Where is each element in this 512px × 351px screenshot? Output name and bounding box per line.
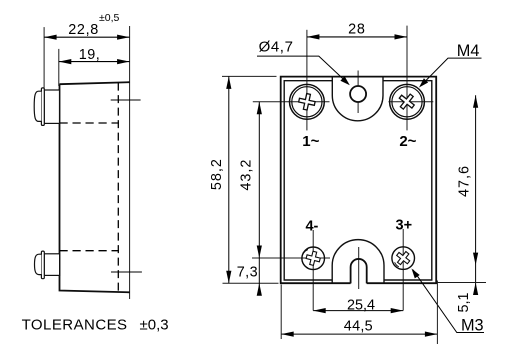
centerline horizontal top screws left (253, 101, 330, 103)
hidden dashed horizontal top (60, 122, 120, 124)
screw 1 inner circle (292, 87, 322, 117)
screw 4 outer circle (302, 247, 325, 270)
svg-text:47,6: 47,6 (456, 165, 472, 197)
extension line left (22,8) (43, 27, 45, 88)
bottom terminal screw profile: boss (44, 254, 59, 276)
svg-text:Ø4,7: Ø4,7 (259, 38, 294, 55)
screw 4 phillips cross (305, 250, 321, 266)
dimension 47,6 with 5,1 below (475, 95, 477, 293)
dimension 58,2 (228, 76, 230, 283)
centerline vertical screw 1 (306, 30, 308, 131)
centerline vertical screw 3 (402, 229, 404, 311)
side body outline (60, 82, 131, 292)
svg-text:±0,3: ±0,3 (140, 317, 169, 334)
svg-text:M4: M4 (457, 42, 480, 60)
svg-text:44,5: 44,5 (344, 318, 373, 334)
svg-text:22,8: 22,8 (68, 22, 99, 38)
dimension 19 line (59, 61, 130, 63)
screw 1 phillips cross (297, 92, 316, 111)
extension line bottom edge right (437, 282, 486, 284)
svg-text:28: 28 (348, 21, 366, 37)
dimension 44,5 (281, 333, 437, 335)
centerline vertical screw 2 (406, 26, 408, 131)
dimension 43,2 with 7,3 below (258, 102, 260, 293)
bottom screw cap (35, 254, 42, 274)
centerline horizontal top screw right (389, 101, 434, 103)
screw 3 phillips cross (394, 249, 413, 268)
svg-text:7,3: 7,3 (237, 265, 258, 281)
body inner border (284, 78, 432, 284)
extension line 44,5 right (436, 281, 438, 345)
screw 2 outer circle (390, 84, 425, 119)
centerline mount hole vertical (357, 71, 359, 114)
svg-text:3+: 3+ (396, 217, 413, 233)
extension line 44,5 left (280, 285, 282, 340)
svg-text:5,1: 5,1 (456, 292, 472, 312)
svg-text:TOLERANCES: TOLERANCES (22, 317, 128, 334)
top screw cap (34, 91, 41, 121)
svg-text:±0,5: ±0,5 (99, 12, 120, 24)
screw 1 outer circle (290, 84, 325, 119)
screw 4 chamfer arc (302, 250, 308, 268)
centerline slot vertical (358, 247, 360, 289)
extension line top edge left (222, 75, 277, 77)
top terminal screw profile: boss (44, 90, 59, 123)
dimension 28 (307, 36, 407, 38)
screw 2 phillips cross (396, 90, 418, 112)
svg-text:58,2: 58,2 (209, 158, 225, 190)
extension line right shared (129, 26, 131, 299)
svg-text:25,4: 25,4 (347, 298, 375, 314)
extension line (19) (58, 49, 60, 86)
hidden dashed vertical line (117, 83, 119, 292)
top screw flange (41, 88, 44, 126)
svg-text:4-: 4- (305, 218, 318, 234)
svg-text:1~: 1~ (302, 133, 319, 150)
dimension 25,4 (313, 310, 403, 312)
svg-text:2~: 2~ (399, 133, 416, 150)
svg-text:43,2: 43,2 (239, 159, 255, 191)
extension line bottom edge left (223, 282, 279, 284)
svg-text:M3: M3 (461, 317, 484, 335)
mounting hole top (350, 86, 366, 102)
centerline tick bottom (111, 271, 142, 273)
centerline vertical screw 4 (312, 230, 314, 311)
svg-text:19,: 19, (79, 47, 101, 63)
dimension 22,8 line (44, 36, 130, 38)
screw 2 inner circle (392, 87, 422, 117)
hidden dashed horizontal bottom (60, 250, 120, 252)
bottom screw flange (41, 251, 44, 279)
centerline tick top (111, 99, 141, 101)
centerline horizontal bottom screw left (252, 257, 330, 259)
screw 3 outer circle (392, 247, 415, 270)
body outer outline (281, 77, 437, 284)
